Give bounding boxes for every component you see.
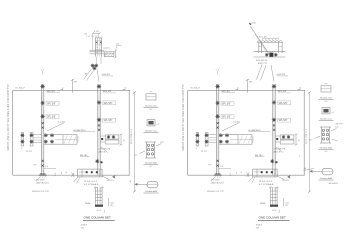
callout4 pill line (left sheet)	[147, 184, 158, 186]
bolt star A-conn 5 (left sheet)	[44, 133, 48, 137]
weld scallop upper (right sheet)	[263, 38, 279, 40]
svg-text:2 |: 2 |	[286, 204, 289, 207]
svg-text:+4: +4	[65, 172, 67, 174]
bolt X B-chain 2 (right sheet)	[273, 129, 275, 131]
splice plate A left outer (left sheet)	[21, 133, 23, 146]
dimension top line (left sheet)	[93, 32, 100, 34]
node callout4 arrow (left sheet)	[135, 183, 138, 186]
leader base left 1 (right sheet)	[249, 177, 253, 182]
bolt X upper col b (left sheet)	[100, 42, 102, 44]
wire conn stitch 3 (left sheet)	[33, 139, 42, 141]
node CL tick column A (left sheet)	[42, 71, 44, 75]
callout4 pill line (right sheet)	[322, 171, 333, 173]
shim col line 2 (right sheet)	[272, 187, 274, 205]
svg-text:Section X-X: Section X-X	[145, 105, 157, 108]
svg-text:SPL 5/8": SPL 5/8"	[279, 103, 288, 105]
node conn B tick a (left sheet)	[120, 134, 123, 135]
node right-angle mark (right sheet)	[298, 87, 301, 90]
stub tick 2 (right sheet)	[278, 45, 282, 47]
wire work point line (right sheet)	[247, 79, 249, 92]
svg-text:SCALE: SCALE	[256, 224, 263, 227]
callout4 leader (left sheet)	[135, 183, 148, 185]
callout3 col right (right sheet)	[329, 127, 331, 143]
svg-text:Section C-C: Section C-C	[145, 129, 157, 132]
beam stub top flange (left sheet)	[44, 134, 63, 136]
node callout1 underline (left sheet)	[144, 106, 159, 108]
bolt X A-low 1 (right sheet)	[217, 160, 219, 162]
svg-text:6x35 W/2 PL: 6x35 W/2 PL	[256, 60, 268, 62]
callout3 bolt 3 (left sheet)	[147, 148, 149, 150]
weld scallop line (right sheet)	[258, 41, 283, 43]
dimension conn B ticks (right sheet)	[295, 134, 297, 144]
callout2 fill (left sheet)	[148, 121, 153, 125]
callout1 tick (right sheet)	[325, 83, 328, 85]
anchor bolt B3 (right sheet)	[271, 171, 273, 173]
leader extra cluster (right sheet)	[304, 169, 314, 171]
splice star B3 (right sheet)	[272, 118, 276, 122]
splice plate A left outer (right sheet)	[196, 133, 198, 146]
column A flange right (left sheet)	[43, 84, 45, 175]
dimension overall column height (right sheet)	[309, 92, 311, 192]
svg-text:Section A-A: Section A-A	[145, 190, 157, 193]
node foot A hatch 2 (right sheet)	[217, 176, 219, 178]
stiffener hatch 1 (left sheet)	[105, 52, 108, 56]
node foot A pad (right sheet)	[214, 174, 222, 176]
shim col line 2 (left sheet)	[97, 187, 99, 205]
node splice A3 box (right sheet)	[221, 115, 234, 119]
node callout2 underline (left sheet)	[144, 131, 159, 133]
wire base stiffener 2 (right sheet)	[274, 169, 276, 177]
node conn B tick b (left sheet)	[120, 144, 123, 145]
callout3 bolt 5 (right sheet)	[322, 138, 324, 140]
node dim tick R (left sheet)	[99, 32, 101, 34]
leader long 2 (right sheet)	[253, 30, 269, 54]
column B flange right (right sheet)	[274, 84, 276, 175]
wire conn stitch 1 (right sheet)	[208, 134, 217, 136]
shim hook left (left sheet)	[94, 187, 97, 189]
svg-text:PL 1/2: PL 1/2	[26, 151, 33, 153]
wire top datum line (right sheet)	[188, 89, 305, 91]
wire witness 1 (left sheet)	[91, 34, 93, 50]
column A flange left (left sheet)	[41, 84, 43, 175]
leader fan R2 (right sheet)	[261, 65, 267, 81]
bolt star A-conn 2 (right sheet)	[195, 140, 199, 144]
splice star B2 (left sheet)	[97, 100, 101, 104]
beam stub hatch 3 (right sheet)	[248, 136, 251, 144]
svg-text:ONE COLUMN DET.: ONE COLUMN DET.	[259, 216, 287, 220]
svg-text:Section B-B: Section B-B	[145, 162, 157, 165]
callout3 bolt 5 (left sheet)	[147, 153, 149, 155]
node foot A hatch 3 (right sheet)	[220, 176, 222, 178]
svg-text:1'-0 1/2: 1'-0 1/2	[233, 121, 241, 123]
anchor bolt B1 (right sheet)	[261, 171, 263, 173]
stiffener hatch 2 (left sheet)	[108, 52, 111, 56]
column A flange left (right sheet)	[216, 84, 218, 175]
bolt star A-conn 6 (right sheet)	[219, 140, 223, 144]
leader base left 2 (left sheet)	[77, 177, 81, 184]
anchor bolt B3 (left sheet)	[96, 171, 98, 173]
callout4 leader (right sheet)	[310, 170, 323, 172]
node foot A plate (right sheet)	[215, 173, 221, 175]
svg-text:3/4: 3/4	[309, 140, 312, 142]
wire base stiffener 1 (right sheet)	[256, 169, 258, 177]
svg-text:4-1 1/2 DIA A.B.: 4-1 1/2 DIA A.B.	[259, 183, 274, 186]
bolt X A-chain 2 (right sheet)	[217, 127, 219, 129]
callout3 bolt 4 (right sheet)	[326, 133, 328, 135]
leader base left 1 (left sheet)	[74, 177, 78, 182]
svg-text:W12x40 N: W12x40 N	[329, 183, 339, 185]
splice star A3 (right sheet)	[215, 114, 219, 118]
node foot A plate (left sheet)	[40, 173, 46, 175]
bolt X A-chain 2 (left sheet)	[42, 127, 44, 129]
svg-text:2x2x0'-8: 2x2x0'-8	[254, 172, 261, 174]
splice star A3 (left sheet)	[40, 114, 44, 118]
bolt star A-conn 5 (right sheet)	[219, 133, 223, 137]
bolt star B-conn 1 (right sheet)	[282, 135, 286, 139]
bolt star A-conn 8 (right sheet)	[225, 140, 229, 144]
beam stub hatch 2 (right sheet)	[244, 136, 248, 144]
node plate tick a (left sheet)	[114, 50, 116, 51]
svg-text:SPL 5/8": SPL 5/8"	[104, 120, 113, 122]
bolt star beam 2 (left sheet)	[94, 64, 98, 68]
column B flange right (left sheet)	[99, 84, 101, 175]
node plate tick b (left sheet)	[114, 57, 116, 58]
node callout2 underline (right sheet)	[319, 119, 334, 121]
svg-text:S-2: S-2	[325, 101, 328, 103]
node beam label underline (right sheet)	[249, 131, 271, 133]
node foot A hatch 3 (left sheet)	[45, 176, 47, 178]
callout3 bolt 1 (right sheet)	[322, 129, 324, 131]
svg-text:2 PL 3/8: 2 PL 3/8	[259, 36, 267, 38]
bolt X A-low 2 (left sheet)	[42, 165, 44, 167]
callout3 leader left (left sheet)	[140, 151, 146, 154]
wire base stiffener 1 (left sheet)	[81, 169, 83, 177]
node dia underline (left sheet)	[116, 44, 122, 46]
callout3 leader right (right sheet)	[331, 129, 337, 132]
svg-text:2 ROWS 7/8: 2 ROWS 7/8	[99, 149, 112, 151]
svg-text:10: 10	[298, 140, 300, 142]
stub tick 1 (right sheet)	[258, 45, 262, 47]
wire conn B stitch 1 (right sheet)	[275, 135, 280, 137]
svg-text:4 1/4: 4 1/4	[272, 210, 276, 212]
node dim tick bottom (left sheet)	[133, 191, 136, 193]
svg-text:3/4": 3/4"	[81, 227, 85, 229]
callout3 leader right (left sheet)	[156, 144, 162, 147]
callout3 bolt 2 (right sheet)	[326, 129, 328, 131]
callout3 col right (left sheet)	[154, 142, 156, 158]
svg-text:A325 BOLTS: A325 BOLTS	[212, 182, 225, 185]
leader below conn B (right sheet)	[276, 147, 283, 153]
svg-text:S-2: S-2	[150, 109, 153, 111]
dimension between cols (left sheet)	[44, 167, 56, 169]
svg-text:4 SD: 4 SD	[252, 23, 257, 25]
bolt dark B2 (right sheet)	[276, 161, 278, 163]
node foot A hatch 2 (left sheet)	[42, 176, 44, 178]
leader long 1 (right sheet)	[251, 27, 270, 55]
wire witness 2 (left sheet)	[97, 34, 99, 38]
leader to beam note (right sheet)	[222, 123, 239, 131]
callout1 tick (left sheet)	[150, 91, 153, 93]
bolt star B-conn 2 (right sheet)	[287, 135, 291, 139]
callout1 box (left sheet)	[146, 94, 156, 100]
splice star A2 (left sheet)	[40, 101, 44, 105]
svg-text:S-2: S-2	[150, 166, 153, 168]
title underline (left sheet)	[83, 220, 115, 222]
callout3 bolt 6 (left sheet)	[151, 153, 153, 155]
shim rung 3 (right sheet)	[271, 196, 278, 198]
svg-text:A325 BOLTS: A325 BOLTS	[37, 182, 50, 185]
node dim tick bottom (right sheet)	[308, 191, 311, 193]
leader fan R3 (right sheet)	[271, 65, 274, 82]
node CL tick column A (right sheet)	[217, 71, 219, 75]
wire column cont b (left sheet)	[100, 57, 102, 64]
splice star B2 (right sheet)	[272, 100, 276, 104]
svg-text:S-2: S-2	[325, 151, 328, 153]
bolt star R1 (right sheet)	[265, 53, 269, 57]
svg-text:3/4: 3/4	[134, 155, 137, 157]
beam stub hatch 1 (right sheet)	[239, 136, 243, 144]
upper column cap (left sheet)	[95, 37, 102, 39]
shim rung 4 (left sheet)	[96, 200, 103, 202]
dimension overall column height (left sheet)	[134, 92, 136, 192]
shim rung 2 (left sheet)	[96, 193, 103, 195]
wire right boundary (left sheet)	[128, 90, 130, 176]
splice star B3 (left sheet)	[97, 118, 101, 122]
svg-text:15'-0" COL C-1: 15'-0" COL C-1	[131, 128, 133, 144]
splice star B4 (left sheet)	[95, 159, 99, 163]
leader right of item3 (right sheet)	[332, 139, 338, 141]
svg-text:EL 100'-0": EL 100'-0"	[16, 88, 26, 90]
wire conn stitch 4 (right sheet)	[208, 142, 217, 144]
wire conn stitch 2 (left sheet)	[33, 136, 42, 138]
node foot A hatch 1 (left sheet)	[40, 176, 42, 178]
title underline (right sheet)	[258, 220, 290, 222]
node splice A2 box (left sheet)	[46, 101, 59, 105]
stiffener hatch 3 (left sheet)	[111, 53, 114, 57]
svg-text:PL 2x1'-2x1'-2: PL 2x1'-2x1'-2	[84, 181, 98, 183]
bolt star A-conn 3 (right sheet)	[205, 133, 209, 137]
node splice B2 box (right sheet)	[278, 101, 291, 105]
shim hook right (right sheet)	[276, 187, 279, 189]
node work point tick (left sheet)	[71, 79, 74, 81]
node splice A1 underline (left sheet)	[47, 92, 61, 94]
column A web centreline (right sheet)	[217, 92, 219, 172]
wire scallop base (right sheet)	[257, 41, 283, 43]
leader fan 1 (left sheet)	[84, 69, 92, 80]
wire conn stitch 1 (left sheet)	[33, 134, 42, 136]
wire conn stitch 2 (right sheet)	[208, 136, 217, 138]
bolt star A-conn 1 (left sheet)	[20, 133, 24, 137]
svg-text:PL 3/4x9: PL 3/4x9	[37, 180, 46, 182]
svg-text:SPL 5/8": SPL 5/8"	[222, 103, 231, 105]
wire conn stitch 3 (right sheet)	[208, 139, 217, 141]
stiffener hatch 0 (left sheet)	[104, 52, 106, 55]
leader fan R1 (right sheet)	[257, 65, 263, 80]
node dim tick L (left sheet)	[92, 32, 94, 34]
bolt star A-conn 4 (right sheet)	[205, 140, 209, 144]
node stub end tick (left sheet)	[77, 137, 79, 143]
svg-text:1'-0 1/2: 1'-0 1/2	[58, 121, 66, 123]
bolt X A-low 1 (left sheet)	[42, 160, 44, 162]
splice star B1 (left sheet)	[97, 84, 101, 88]
svg-text:w8: w8	[96, 52, 98, 54]
svg-text:A325 N: A325 N	[274, 151, 281, 154]
shim dark base (left sheet)	[95, 205, 103, 207]
callout3 base (left sheet)	[145, 157, 156, 159]
conn B plate lower (left sheet)	[105, 140, 119, 144]
callout3 col left (left sheet)	[146, 142, 148, 158]
node arrow on bottom datum (right sheet)	[287, 175, 290, 178]
beam stub bottom flange (left sheet)	[44, 143, 63, 145]
callout3 leader left (right sheet)	[315, 136, 321, 139]
svg-text:6: 6	[196, 148, 197, 150]
bolt star A-conn 2 (left sheet)	[20, 140, 24, 144]
node callout4 underline (left sheet)	[144, 192, 159, 194]
splice star A1 (left sheet)	[40, 84, 44, 88]
node splice B1 underline (right sheet)	[278, 92, 291, 94]
svg-text:4 1/4: 4 1/4	[97, 210, 101, 212]
splice star A2 (right sheet)	[215, 101, 219, 105]
leader base right (left sheet)	[102, 176, 109, 180]
bolt X B-chain 2 (left sheet)	[98, 129, 100, 131]
stub column 2a (right sheet)	[278, 42, 280, 53]
column B flange left (right sheet)	[272, 84, 274, 175]
svg-text:Section C-C: Section C-C	[320, 117, 332, 120]
svg-text:A325 TYP: A325 TYP	[258, 62, 268, 65]
upper column flange 1 (left sheet)	[95, 38, 97, 57]
leader below conn B (left sheet)	[101, 147, 108, 153]
svg-text:SPL 3/4": SPL 3/4"	[103, 91, 112, 93]
beam stub web line (right sheet)	[230, 138, 252, 140]
node splice B3 box (right sheet)	[278, 118, 291, 122]
leader foot A (left sheet)	[36, 177, 40, 182]
leader long 3 (right sheet)	[255, 34, 267, 52]
svg-text:A325 N: A325 N	[99, 151, 106, 154]
beam bottom line (right sheet)	[254, 56, 286, 58]
svg-text:)(: )(	[246, 172, 250, 178]
beam stub bottom flange (right sheet)	[219, 143, 238, 145]
dimension shim right (right sheet)	[283, 198, 285, 207]
svg-text:xx: xx	[96, 43, 98, 45]
svg-text:SPL 5/8": SPL 5/8"	[222, 117, 231, 119]
svg-text:4-1 1/2 DIA A.B.: 4-1 1/2 DIA A.B.	[84, 183, 99, 186]
callout3 col left (right sheet)	[321, 127, 323, 143]
wire column cont a (left sheet)	[95, 57, 97, 64]
shim rung 4 (right sheet)	[271, 200, 278, 202]
svg-text:MATCH LINE EL 100'-0" SEE DWG: MATCH LINE EL 100'-0" SEE DWG S-401 FOR …	[7, 84, 10, 150]
svg-text:SHIM: SHIM	[85, 203, 90, 205]
svg-text:Section X-X: Section X-X	[320, 97, 332, 100]
svg-text:2-L4x4: 2-L4x4	[103, 48, 110, 50]
upper column tick 1 (left sheet)	[95, 39, 102, 41]
callout3 bolt 2 (left sheet)	[151, 144, 153, 146]
node stub end tick (right sheet)	[252, 137, 254, 143]
svg-text:EL 100'-0": EL 100'-0"	[191, 88, 201, 90]
node BM underline (right sheet)	[255, 156, 265, 158]
callout3 base (right sheet)	[320, 142, 331, 144]
bolt star B-conn 1 (left sheet)	[107, 135, 111, 139]
splice plate A left inner (left sheet)	[30, 133, 33, 146]
splice star A1 (right sheet)	[215, 84, 219, 88]
beam top line (right sheet)	[254, 51, 286, 53]
node R fan underline (right sheet)	[277, 75, 288, 77]
bolt dark B (right sheet)	[276, 138, 278, 140]
column B flange left (left sheet)	[97, 84, 99, 175]
stub column 1a (right sheet)	[258, 42, 260, 53]
bolt star B-conn 2 (left sheet)	[112, 135, 116, 139]
svg-text:x 2: x 2	[332, 112, 335, 114]
shim col line 4 (right sheet)	[276, 187, 278, 205]
stub column 1b (right sheet)	[261, 42, 263, 53]
bolt cluster dark (right sheet)	[269, 53, 273, 57]
svg-text:2 |: 2 |	[111, 204, 114, 207]
bolt X B-chain 1 (right sheet)	[273, 124, 275, 126]
svg-text:x 2: x 2	[157, 124, 160, 126]
shim rung 1 (left sheet)	[96, 190, 103, 192]
column A web centreline (left sheet)	[42, 92, 44, 172]
svg-text:5 1/2: 5 1/2	[94, 31, 100, 33]
callout3 bolt 4 (left sheet)	[151, 148, 153, 150]
shim col line 1 (left sheet)	[95, 187, 97, 205]
dimension between cols (right sheet)	[219, 167, 231, 169]
shim rung 1 (right sheet)	[271, 190, 278, 192]
base plate B box (right sheet)	[253, 169, 277, 177]
wire bottom datum line (right sheet)	[188, 174, 305, 176]
svg-text:): )	[279, 209, 280, 213]
beam top flange b (left sheet)	[90, 51, 105, 53]
wire base stiffener 2 (left sheet)	[99, 169, 101, 177]
node right-angle mark (left sheet)	[123, 87, 126, 90]
svg-text:GROUT: GROUT	[107, 180, 115, 182]
svg-text:3/4": 3/4"	[256, 227, 260, 229]
bolt star A-conn 8 (left sheet)	[50, 140, 54, 144]
beam stub end box (left sheet)	[63, 135, 77, 145]
wire work point line (left sheet)	[72, 79, 74, 92]
svg-text:PL 1/2: PL 1/2	[201, 151, 208, 153]
svg-text:MATCH LINE EL 100'-0" SEE DWG: MATCH LINE EL 100'-0" SEE DWG S-401 FOR …	[182, 84, 185, 150]
upper column web a (left sheet)	[96, 38, 98, 57]
callout3 bolt 6 (right sheet)	[326, 138, 328, 140]
callout3 bolt 1 (left sheet)	[147, 144, 149, 146]
svg-text:15'-0" COL C-1: 15'-0" COL C-1	[306, 128, 308, 144]
wire right boundary (right sheet)	[303, 90, 305, 176]
shim dark base (right sheet)	[270, 205, 278, 207]
column A flange right (right sheet)	[218, 84, 220, 175]
shim rung 3 (left sheet)	[96, 196, 103, 198]
svg-text:SPL 5/8": SPL 5/8"	[104, 103, 113, 105]
node splice B2 box (left sheet)	[103, 101, 116, 105]
callout3 cap (right sheet)	[320, 126, 331, 128]
bolt star A-conn 4 (left sheet)	[30, 140, 34, 144]
node callout1 underline (right sheet)	[319, 98, 334, 100]
bolt star A-conn 3 (left sheet)	[30, 133, 34, 137]
node work point tick (right sheet)	[246, 79, 249, 81]
shim hook right (left sheet)	[101, 187, 104, 189]
svg-text:6: 6	[21, 148, 22, 150]
upper column tick 3 (left sheet)	[95, 49, 102, 51]
wire bottom datum line (left sheet)	[13, 174, 130, 176]
callout2 box (right sheet)	[322, 108, 330, 114]
svg-text:SPL 5/8": SPL 5/8"	[47, 117, 56, 119]
stub column 2b (right sheet)	[281, 42, 283, 53]
conn B plate lower (right sheet)	[280, 140, 294, 144]
leader base right (right sheet)	[277, 176, 284, 180]
node fan note underline (left sheet)	[102, 75, 113, 77]
bolt star A-conn 6 (left sheet)	[44, 140, 48, 144]
svg-text:SPL 5/8": SPL 5/8"	[279, 120, 288, 122]
svg-text:2 ROWS 7/8: 2 ROWS 7/8	[274, 149, 287, 151]
dimension shim right (left sheet)	[108, 198, 110, 207]
